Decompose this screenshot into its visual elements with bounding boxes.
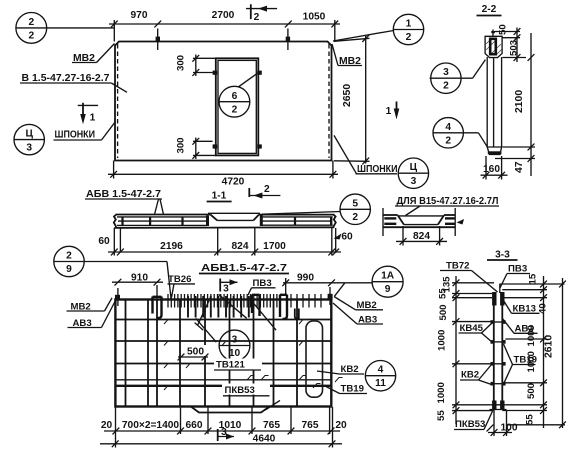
leader circle 6/2: [239, 73, 259, 87]
svg-text:824: 824: [232, 241, 249, 252]
svg-text:1: 1: [386, 106, 392, 117]
svg-text:2: 2: [28, 17, 34, 28]
svg-text:Ц: Ц: [25, 129, 33, 140]
embed mark opening bottom-right: [257, 144, 262, 148]
left band end chamfer: [210, 215, 217, 221]
svg-text:2: 2: [28, 31, 34, 42]
svg-text:9: 9: [66, 264, 72, 275]
arrow right: [457, 219, 465, 225]
mesh horizontal bars: [115, 319, 331, 321]
callout circle 4/2: [433, 118, 463, 148]
embed mark opening bottom-left: [213, 144, 218, 148]
small hook: [295, 309, 299, 319]
svg-text:4: 4: [378, 365, 384, 376]
callout circle 2/9: [54, 246, 84, 276]
small section right edge: [454, 208, 456, 236]
dim 300 opening top: [193, 57, 216, 59]
svg-text:1-1: 1-1: [212, 191, 227, 202]
callout circle 1A/9: [372, 266, 403, 297]
svg-text:970: 970: [131, 10, 148, 21]
leader circle 2/2: [47, 27, 115, 29]
section cut mark 3 bottom: [217, 429, 219, 441]
small section left band: [383, 214, 398, 216]
svg-text:40: 40: [538, 303, 549, 314]
svg-text:4: 4: [445, 122, 451, 133]
dim 2100/47 outer line: [530, 33, 532, 176]
bottom wedge: [487, 147, 501, 155]
svg-text:2650: 2650: [342, 84, 353, 107]
anchor loop MB2 left on top edge: [156, 37, 160, 42]
svg-text:300: 300: [176, 137, 187, 153]
svg-text:2: 2: [264, 184, 270, 195]
small section middle recess: [398, 215, 444, 217]
svg-text:500: 500: [526, 383, 537, 399]
svg-text:3: 3: [26, 143, 32, 154]
svg-text:60: 60: [341, 232, 353, 243]
embed mark opening top-right: [257, 71, 262, 75]
svg-text:ПКВ53: ПКВ53: [455, 419, 485, 430]
leader circle 1/2: [333, 31, 394, 42]
svg-text:660: 660: [186, 420, 203, 431]
svg-text:3: 3: [221, 427, 227, 438]
element body verticals: [486, 57, 488, 147]
callout circle 3/10: [219, 330, 250, 361]
trapezoid dip bottom: [191, 407, 270, 413]
right dim line: [543, 276, 545, 428]
right band outline: [259, 214, 334, 216]
svg-text:3-3: 3-3: [495, 250, 510, 261]
dim 160 bottom: [485, 156, 487, 180]
leader circle 2/9: [84, 261, 167, 263]
svg-text:2100: 2100: [514, 90, 525, 113]
svg-text:2: 2: [254, 12, 260, 23]
bend marks: [164, 320, 172, 325]
svg-text:500: 500: [438, 304, 449, 320]
svg-text:50: 50: [498, 24, 509, 35]
middle recess lines: [208, 212, 260, 214]
small section right band: [444, 214, 455, 216]
dim 990: [283, 282, 372, 284]
anchor MB2 right mesh: [328, 294, 333, 300]
door opening outer: [216, 58, 258, 155]
svg-text:700×2=1400: 700×2=1400: [122, 420, 180, 431]
top anchor box: [485, 36, 502, 57]
svg-text:3: 3: [223, 284, 229, 295]
P-loop 2: [252, 295, 260, 317]
svg-text:503: 503: [509, 40, 520, 56]
P-loop 1: [153, 297, 162, 319]
callout circle 6/2: [219, 86, 250, 117]
svg-text:100: 100: [501, 423, 518, 434]
svg-text:2196: 2196: [160, 241, 183, 252]
svg-text:15: 15: [528, 273, 539, 284]
mesh frame: [115, 300, 331, 407]
svg-text:2: 2: [406, 32, 412, 43]
small section left edge: [382, 208, 384, 236]
svg-text:4720: 4720: [222, 177, 245, 188]
P-loop 3: [280, 295, 287, 319]
dim 50/503 inner line: [516, 28, 518, 63]
svg-text:160: 160: [483, 164, 500, 175]
dim 100 bottom: [493, 410, 495, 436]
svg-text:КВ2: КВ2: [461, 370, 479, 381]
svg-text:2-2: 2-2: [482, 4, 497, 15]
svg-text:3: 3: [232, 335, 238, 346]
wedge dark bar: [488, 151, 502, 154]
anchor loop MB2 right on top edge: [286, 37, 290, 42]
section cut mark 3 top: [219, 279, 221, 292]
left dim line: [455, 276, 457, 424]
anchor loop in box: [490, 39, 496, 54]
svg-text:6: 6: [232, 91, 238, 102]
svg-text:АБВ1.5-47-2.7: АБВ1.5-47-2.7: [201, 263, 287, 274]
comb ticks on top edge: [168, 294, 321, 308]
leader circle 3/2: [473, 60, 486, 79]
svg-text:1: 1: [406, 19, 412, 30]
callout circle 2/2: [16, 13, 47, 44]
svg-text:2700: 2700: [212, 10, 235, 21]
svg-text:2: 2: [232, 105, 238, 116]
top anchor blobs: [492, 292, 496, 306]
svg-text:9: 9: [385, 284, 391, 295]
section cut mark 2 top: [250, 4, 252, 19]
callout circle Ц/3 left: [14, 124, 44, 154]
leader circle 1A/9: [334, 283, 345, 297]
svg-text:20: 20: [335, 420, 347, 431]
pin top: [499, 284, 501, 293]
svg-text:11: 11: [375, 378, 386, 389]
rebar tie marks right band: [260, 216, 263, 227]
leader circle 5/2: [262, 212, 341, 215]
dim 300 opening bottom: [193, 140, 213, 142]
transverse bar ticks: [491, 322, 506, 405]
svg-text:1050: 1050: [303, 12, 326, 23]
svg-text:3: 3: [411, 176, 417, 187]
bottom dim row 1: [115, 407, 117, 448]
dim row of section 1-1: [113, 228, 115, 256]
dim 4720 bottom: [113, 161, 115, 179]
bottom anchor blobs: [492, 401, 496, 410]
embed mark opening top-left: [213, 71, 218, 75]
callout circle 3/2: [431, 63, 461, 93]
callout circle Ц/3 right: [398, 158, 428, 188]
svg-text:824: 824: [413, 231, 430, 242]
svg-text:3: 3: [443, 67, 449, 78]
dashed key line right edge: [328, 44, 330, 158]
door opening inner: [218, 60, 256, 153]
svg-text:20: 20: [101, 420, 113, 431]
svg-text:765: 765: [302, 420, 319, 431]
mesh vertical bars: [125, 300, 127, 407]
dim 824 small section: [402, 226, 404, 246]
svg-text:910: 910: [131, 273, 148, 284]
svg-text:2: 2: [352, 212, 358, 223]
label PKV53: [222, 384, 270, 395]
leader fork: [155, 199, 159, 215]
svg-text:2: 2: [443, 81, 449, 92]
callout circle 5/2: [340, 194, 370, 224]
svg-text:55: 55: [525, 414, 536, 425]
left band outline: [114, 215, 117, 228]
svg-text:55: 55: [436, 410, 447, 421]
anchor MB2 left mesh: [115, 295, 120, 301]
dim 2610 line: [562, 278, 564, 428]
svg-text:1700: 1700: [263, 241, 286, 252]
dashed key line left edge: [117, 44, 119, 158]
section cut mark 1 left: [78, 104, 98, 106]
svg-text:2610: 2610: [544, 335, 555, 358]
bottom dim row 2: [100, 443, 342, 445]
svg-text:1: 1: [90, 113, 96, 124]
svg-text:4640: 4640: [253, 434, 276, 445]
diagonal leaders in mesh: [198, 297, 211, 325]
hatch in box: [486, 38, 492, 44]
svg-text:47: 47: [514, 161, 525, 173]
rebar tie marks left band: [121, 217, 123, 226]
svg-text:55: 55: [438, 288, 449, 299]
PV3 bar bundle long verticals: [188, 296, 249, 318]
pin on top: [492, 30, 494, 37]
svg-text:1000: 1000: [436, 382, 447, 403]
svg-text:2: 2: [445, 135, 451, 146]
svg-text:765: 765: [263, 420, 280, 431]
dim 910: [112, 281, 163, 283]
callout circle 1/2: [393, 14, 423, 44]
svg-text:990: 990: [297, 273, 314, 284]
dim 2650 right: [334, 38, 370, 41]
element verticals: [493, 293, 495, 408]
svg-text:1А: 1А: [381, 271, 395, 282]
svg-text:5: 5: [352, 198, 358, 209]
svg-text:500: 500: [187, 347, 204, 358]
svg-text:2: 2: [66, 251, 72, 262]
label TV121: [214, 359, 262, 370]
leader circle 4/2: [478, 133, 487, 147]
svg-text:ШПОНКИ: ШПОНКИ: [55, 130, 96, 141]
dim 500 inner: [183, 345, 207, 356]
rounded bar band right: [306, 321, 323, 397]
svg-text:ТВ121: ТВ121: [216, 360, 245, 371]
svg-text:300: 300: [176, 55, 187, 71]
section cut mark 2 bottom: [248, 188, 250, 197]
top dimension line: [109, 23, 340, 25]
svg-text:10: 10: [229, 348, 241, 359]
callout circle 4/11: [365, 361, 395, 391]
svg-text:60: 60: [98, 236, 110, 247]
svg-text:Ц: Ц: [410, 162, 418, 173]
svg-text:1000: 1000: [437, 330, 448, 351]
panel outline: [115, 42, 332, 161]
svg-text:ПКВ53: ПКВ53: [225, 385, 255, 396]
